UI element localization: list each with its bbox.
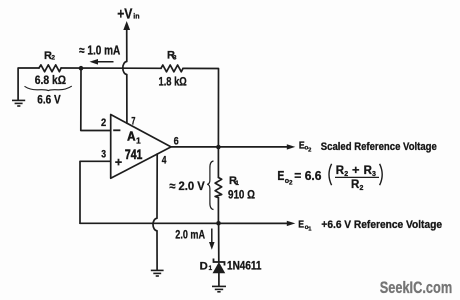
swash underline below 6.8 kOhm <box>25 86 72 91</box>
label Eo1 output <box>298 220 312 233</box>
svg-text:SeekIC.com: SeekIC.com <box>380 278 453 297</box>
svg-text:= 6.6: = 6.6 <box>294 169 321 183</box>
svg-text:6: 6 <box>174 136 179 148</box>
wire: ground stub up to top rail, left segment to R2 <box>18 68 39 100</box>
wire: pin 4 down with hop over bottom rail, to ground <box>153 154 157 270</box>
svg-text:4: 4 <box>162 154 167 166</box>
svg-text:+6.6 V Reference Voltage: +6.6 V Reference Voltage <box>321 219 442 231</box>
ground symbol (left, below R2 wire) <box>12 100 25 106</box>
watermark SeekIC.com <box>380 278 453 297</box>
label R3 <box>167 50 177 62</box>
svg-text:1: 1 <box>136 136 141 146</box>
svg-text:in: in <box>133 13 139 20</box>
label 6.8 kOhm <box>35 73 67 87</box>
svg-text:741: 741 <box>125 147 143 162</box>
svg-text:≈ 1.0 mA: ≈ 1.0 mA <box>79 44 120 58</box>
svg-text:6.6 V: 6.6 V <box>37 92 60 106</box>
svg-text:A: A <box>127 130 135 144</box>
label 1.8 kOhm <box>159 75 188 89</box>
ground symbol (below zener D1) <box>212 286 226 291</box>
arrow: Eo1 output arrowhead <box>287 221 296 226</box>
zener diode D1 symbol <box>213 259 224 273</box>
svg-text:2: 2 <box>360 185 364 192</box>
svg-text:1: 1 <box>209 265 213 272</box>
svg-text:Scaled Reference Voltage: Scaled Reference Voltage <box>321 141 437 153</box>
svg-text:3: 3 <box>101 149 106 161</box>
svg-text:1: 1 <box>235 180 239 187</box>
op-amp minus sign <box>113 129 120 131</box>
wire: R2 to node A, continuing to R3 <box>61 67 161 69</box>
svg-text:2.0 mA: 2.0 mA <box>175 228 205 242</box>
wire: +Vin vertical with hop over top rail, down to op-amp pin 7 <box>123 28 127 124</box>
wire: R3 right, corner at top-right, down right rail to output node <box>183 68 219 147</box>
label D1 <box>200 260 213 272</box>
svg-text:D: D <box>200 260 208 272</box>
label R2 <box>44 50 55 62</box>
op-amp plus sign <box>115 159 122 166</box>
svg-text:E: E <box>277 169 284 183</box>
label 1N4611 <box>227 259 262 273</box>
wire: bottom rail from pin-3 leg to Eo1 arrow <box>80 222 288 224</box>
label +Vin <box>117 6 139 22</box>
svg-text:6.8 kΩ: 6.8 kΩ <box>35 73 67 87</box>
wire: pin 3 left, down, joining bottom rail <box>80 161 111 223</box>
label 6.6 V <box>37 92 60 106</box>
wire: output pin 6 to Eo2 arrow <box>171 146 288 148</box>
svg-text:1.8 kΩ: 1.8 kΩ <box>159 75 188 89</box>
pin 3 label <box>101 149 106 161</box>
label 741 <box>125 147 143 162</box>
wire: R1 bottom lead to bottom rail node <box>217 198 219 224</box>
svg-text:+V: +V <box>117 6 132 22</box>
svg-text:910 Ω: 910 Ω <box>228 188 255 202</box>
pin 7 label <box>131 115 135 127</box>
svg-text:1: 1 <box>308 227 312 233</box>
label R1 <box>229 175 239 187</box>
wire: R1 top lead <box>217 147 219 178</box>
wire: zener D1 bottom lead to ground <box>218 273 220 287</box>
svg-text:≈ 2.0 V: ≈ 2.0 V <box>169 179 205 193</box>
ground symbol (op-amp pin 4) <box>151 270 164 276</box>
svg-text:1N4611: 1N4611 <box>227 259 262 273</box>
resistor R2 body <box>39 65 61 72</box>
label Scaled Reference Voltage <box>321 141 437 153</box>
label 2.0 mA <box>175 228 205 242</box>
pin 6 label <box>174 136 179 148</box>
equation Eo2 = 6.6 ((R2+R3)/R2) <box>277 164 382 192</box>
arrow: +Vin up arrowhead <box>123 21 130 30</box>
node A junction dot <box>79 66 84 71</box>
svg-text:2: 2 <box>308 148 311 154</box>
arrow: 1.0 mA current arrow pointing left <box>90 59 114 65</box>
output node junction dot <box>216 145 221 150</box>
svg-text:E: E <box>298 220 304 231</box>
arrow: Eo2 output arrowhead <box>287 144 296 149</box>
svg-text:2: 2 <box>101 117 106 129</box>
label +6.6 V Reference Voltage <box>321 219 442 231</box>
bottom rail junction dot <box>216 221 221 226</box>
curly brace for 2.0 V measurement <box>207 161 213 210</box>
svg-text:7: 7 <box>131 115 135 127</box>
label 910 Ohm <box>228 188 255 202</box>
resistor R1 body <box>215 178 222 198</box>
op-amp A1 triangle <box>111 115 171 179</box>
svg-text:3: 3 <box>173 55 177 62</box>
label ~1.0 mA <box>79 44 120 58</box>
wire: node A down, right into pin 2 <box>81 68 111 130</box>
label Eo2 output <box>299 140 311 153</box>
label A1 <box>127 130 141 146</box>
arrow: 2.0 mA current arrow pointing down <box>209 229 215 250</box>
svg-text:2: 2 <box>289 180 293 187</box>
svg-text:+: + <box>352 165 360 177</box>
label ~2.0 V <box>169 179 205 193</box>
resistor R3 body <box>161 65 183 72</box>
svg-text:2: 2 <box>51 55 55 62</box>
pin 4 label <box>162 154 167 166</box>
wire: zener D1 top lead <box>218 223 220 262</box>
pin 2 label <box>101 117 106 129</box>
